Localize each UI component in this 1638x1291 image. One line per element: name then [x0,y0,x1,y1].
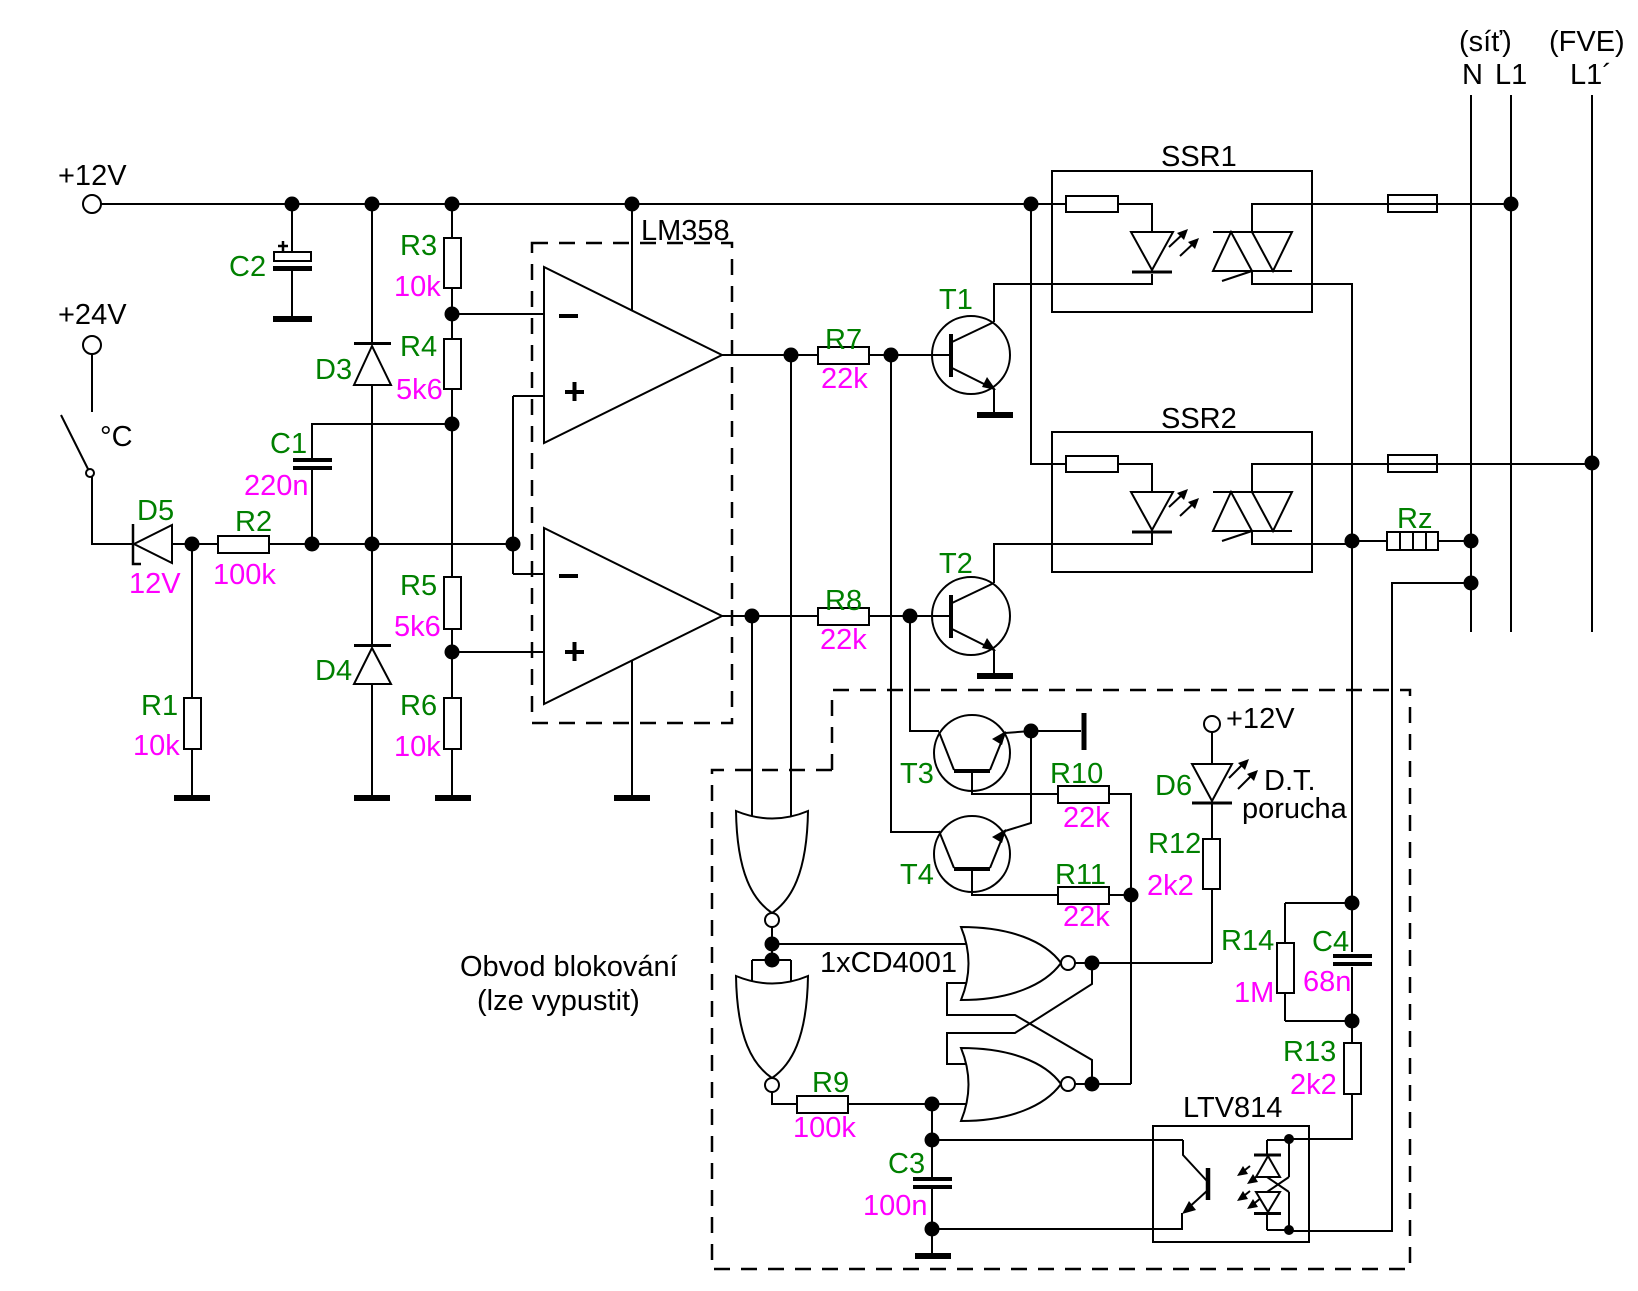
LED pair LTV814 [1254,1134,1294,1235]
junction Rz/N [1464,534,1479,549]
svg-text:R12: R12 [1148,828,1201,860]
wire U1B V- pin [631,660,633,795]
wire D5 to R2 [172,543,218,545]
junction op1+/op2- feed [506,537,521,552]
svg-text:+12V: +12V [1226,703,1295,735]
svg-text:T2: T2 [939,548,973,580]
wire R7 junction down to T4 [891,355,939,832]
svg-text:R2: R2 [235,506,272,538]
resistor R14 1M [1221,903,1352,1021]
svg-text:L1´: L1´ [1570,59,1612,91]
svg-text:N: N [1462,59,1483,91]
resistor R2 100k [213,506,276,591]
svg-text:22k: 22k [821,363,868,395]
svg-text:R14: R14 [1221,925,1274,957]
resistor Rz [1352,503,1471,550]
node +12V terminal D6 [1204,703,1295,735]
wire op1+ / op2- vertical [512,396,514,574]
wire R8 junction down to T3 [910,616,939,731]
svg-text:1M: 1M [1234,977,1274,1009]
transistor T4 [900,816,1010,892]
wire U2B input bracket [752,960,791,988]
net L1' line [1549,26,1625,632]
wire N to LTV return [1289,583,1471,1231]
junction C3 bottom [925,1222,940,1237]
svg-text:+24V: +24V [58,299,127,331]
wire U2B out to R9 [772,1092,797,1104]
wire fuse F2 to L1' [1437,463,1592,465]
gate U2A NOR vertical [736,811,957,979]
resistor R8 22k [818,585,869,656]
svg-text:10k: 10k [394,731,441,763]
svg-text:C2: C2 [229,251,266,283]
svg-text:10k: 10k [133,730,180,762]
wire U2C output [1075,962,1212,964]
junction +12V/SSR feed [1024,197,1039,212]
svg-text:D4: D4 [315,655,352,687]
junction N/LTV return [1464,576,1479,591]
svg-text:Obvod blokování: Obvod blokování [460,951,678,983]
capacitor C2 electrolytic [229,204,312,316]
wire U1B output [722,615,818,617]
wire SSR2 triac top to fuse [1252,464,1388,492]
resistor R11 22k [1055,859,1110,933]
wire T1 emitter to ground [993,389,995,412]
svg-text:+12V: +12V [58,160,127,192]
net N line [1459,26,1512,632]
op-amp U1B [544,528,722,704]
svg-text:(síť): (síť) [1459,26,1512,58]
ground C3 [915,1253,951,1259]
wire SSR2 resistor to LED [1118,464,1152,492]
wire SSR1 resistor to LED [1118,204,1152,232]
svg-text:100k: 100k [793,1112,856,1144]
svg-text:T3: T3 [900,758,934,790]
svg-text:D6: D6 [1155,770,1192,802]
svg-text:100n: 100n [863,1190,928,1222]
LED D6 [1155,732,1348,825]
diode D4 [315,646,391,688]
triac SSR2 [1213,492,1292,541]
capacitor C1 220n [244,424,452,544]
wire C3 bottom to LTV [932,1228,1183,1230]
junction L1 [1504,197,1519,212]
svg-text:22k: 22k [820,624,867,656]
svg-text:C1: C1 [270,428,307,460]
wire C3 node to LTV [932,1139,1183,1141]
junction Rz node [1345,534,1360,549]
junction C4 top [1345,896,1360,911]
resistor SSR2 input [1066,456,1118,472]
svg-text:R11: R11 [1055,859,1106,891]
transistor T1 [932,284,1010,394]
svg-text:R1: R1 [141,690,178,722]
ground C2 [273,316,312,322]
ground D4 [354,795,390,801]
wire T2 emitter to ground [993,650,995,673]
junction +12V/C2 [285,197,300,212]
svg-text:SSR1: SSR1 [1161,141,1237,173]
wire U2C feedback input [947,983,1092,1084]
transistor T3 [900,715,1010,791]
svg-text:22k: 22k [1063,901,1110,933]
wire T3 base to R10 [972,773,1058,794]
resistor R5 5k6 [394,570,461,698]
wire SSR2 triac bottom [1252,531,1352,544]
relay SSR2 box [1052,403,1312,572]
svg-text:2k2: 2k2 [1290,1069,1337,1101]
ground R6 [435,795,471,801]
svg-text:C3: C3 [888,1148,925,1180]
capacitor C3 100n [863,1140,952,1253]
wire D4 to ground [371,684,373,795]
resistor R9 100k [793,1067,856,1144]
svg-text:(lze vypustit): (lze vypustit) [477,985,640,1017]
blocking circuit dashed box [460,690,1410,1269]
wire op2- [513,573,544,575]
transistor T2 [932,548,1010,655]
phototransistor LTV814 [1182,1140,1262,1229]
ground T2 [977,673,1013,679]
svg-text:R7: R7 [825,324,862,356]
wire R10 right / feedback vertical [1109,794,1131,1084]
svg-text:LM358: LM358 [641,215,730,247]
svg-text:T4: T4 [900,859,934,891]
svg-text:R10: R10 [1050,758,1103,790]
wire R11 right [1109,894,1131,896]
svg-text:R4: R4 [400,331,437,363]
junction +12V/LM358 V+ [625,197,640,212]
svg-text:SSR2: SSR2 [1161,403,1237,435]
wire R3/R4 junction to op1- [452,313,544,315]
junction +12V/D3 [365,197,380,212]
relay SSR1 box [1052,141,1312,312]
resistor R12 2k2 [1147,804,1220,963]
triac SSR1 [1213,232,1292,281]
svg-text:68n: 68n [1303,966,1351,998]
wire switch to D5 [92,477,132,544]
svg-text:5k6: 5k6 [396,374,443,406]
junction R9/C3 [925,1097,940,1112]
terminal bar [1082,713,1087,750]
resistor R4 5k6 [396,331,461,424]
switch thermostat °C [61,415,133,477]
svg-text:D3: D3 [315,354,352,386]
junction U2C out [1085,956,1100,971]
svg-text:220n: 220n [244,470,309,502]
resistor R13 2k2 [1283,1036,1361,1139]
capacitor C4 68n [1303,926,1372,1043]
wire U2D feedback input [947,963,1092,1064]
node +24V terminal [58,299,127,354]
svg-text:L1: L1 [1495,59,1527,91]
wire T2 collector to SSR2 [994,533,1152,583]
svg-text:R5: R5 [400,570,437,602]
wire SSR1 triac bottom [1252,271,1352,541]
wire T4 emitter to node [1005,731,1031,831]
resistor SSR1 input [1066,196,1118,212]
wire +24V to switch [91,354,93,412]
svg-text:R8: R8 [825,585,862,617]
wire U2A out to U2C input [772,943,966,945]
fuse F2 [1388,455,1437,472]
wire D3 to D4 [371,385,373,644]
svg-text:R13: R13 [1283,1036,1336,1068]
junction U2D out [1085,1077,1100,1092]
wire Rz node down to C4 [1351,541,1353,952]
wire U1A output [722,354,818,356]
diode D3 [315,204,391,386]
svg-text:°C: °C [100,421,133,453]
wire R7 to T1 base [869,354,951,356]
LED SSR2 [1131,489,1199,532]
gate U2B NOR vertical [736,976,808,1092]
wire SSR1 triac top to fuse [1252,204,1388,232]
wire U1B out to NOR input [751,616,753,823]
svg-text:T1: T1 [939,284,973,316]
ground T1 [977,412,1013,418]
wire U2A out [771,927,773,960]
wire op1+ [513,395,544,397]
wire +12V rail [101,203,1066,205]
junction C3 top [925,1133,940,1148]
op-amp U1 LM358 dashed box [532,215,732,723]
svg-text:Rz: Rz [1397,503,1432,535]
gate U2D NOR [961,1048,1075,1121]
svg-text:12V: 12V [129,568,181,600]
resistor R3 10k [394,204,461,339]
resistor R10 22k [1050,758,1110,834]
wire R8 to T2 base [869,615,951,617]
wire R9 to U2D input [848,1103,966,1105]
junction U1B out [745,609,760,624]
wire U1A out to NOR input [790,355,792,823]
wire T1 collector to SSR1 [994,274,1152,322]
wire U1A V+ pin [631,204,633,310]
junction C1 bottom [305,537,320,552]
resistor R1 10k [133,544,201,795]
junction U2A out [765,937,780,952]
svg-text:R6: R6 [400,690,437,722]
svg-text:porucha: porucha [1242,793,1348,825]
svg-text:2k2: 2k2 [1147,870,1194,902]
node +12V terminal [58,160,127,213]
ground U1B [614,795,650,801]
LED SSR1 [1131,229,1199,272]
svg-text:R9: R9 [812,1067,849,1099]
svg-text:LTV814: LTV814 [1183,1092,1282,1124]
wire fuse F1 to L1 [1437,203,1511,205]
fuse F1 [1388,195,1437,212]
resistor R7 22k [818,324,869,395]
svg-text:D5: D5 [137,495,174,527]
svg-text:10k: 10k [394,271,441,303]
svg-text:100k: 100k [213,559,276,591]
svg-text:1xCD4001: 1xCD4001 [820,947,957,979]
wire T3 emitter to node [1005,731,1081,733]
junction D3/D4 node [365,537,380,552]
svg-text:(FVE): (FVE) [1549,26,1625,58]
junction R7/T4 [884,348,899,363]
junction R8/T3 [903,609,918,624]
junction C4 bottom [1345,1014,1360,1029]
svg-text:C4: C4 [1312,926,1349,958]
wire C3 node vertical [931,1104,933,1140]
wire R5/R6 junction to op2+ [452,651,544,653]
resistor R6 10k [394,690,461,795]
junction U2B input [765,953,780,968]
junction L1' [1585,456,1600,471]
junction R5/R6 [445,645,460,660]
junction R4/C1 [445,417,460,432]
wire T4 base to R11 [972,871,1058,895]
svg-text:5k6: 5k6 [394,611,441,643]
junction R3/R4 [445,307,460,322]
junction R10/R11 [1124,888,1139,903]
ground R1 [174,795,210,801]
wire R2 to op-amp inputs [269,543,513,545]
junction U1A out [784,348,799,363]
svg-text:22k: 22k [1063,802,1110,834]
svg-text:R3: R3 [400,230,437,262]
net L1 line [1495,59,1527,632]
wire R4 to R5 [451,424,453,577]
junction T3/T4 emitters [1024,724,1039,739]
diode D5 zener 12V [129,495,181,600]
gate U2C NOR [961,927,1075,1000]
optocoupler LTV814 box [1153,1092,1309,1242]
wire U2D output [1075,1083,1131,1085]
op-amp U1A [544,267,722,443]
junction D5/R1 [185,537,200,552]
wire SSR feed vertical [1031,204,1066,464]
junction +12V/R3 [445,197,460,212]
